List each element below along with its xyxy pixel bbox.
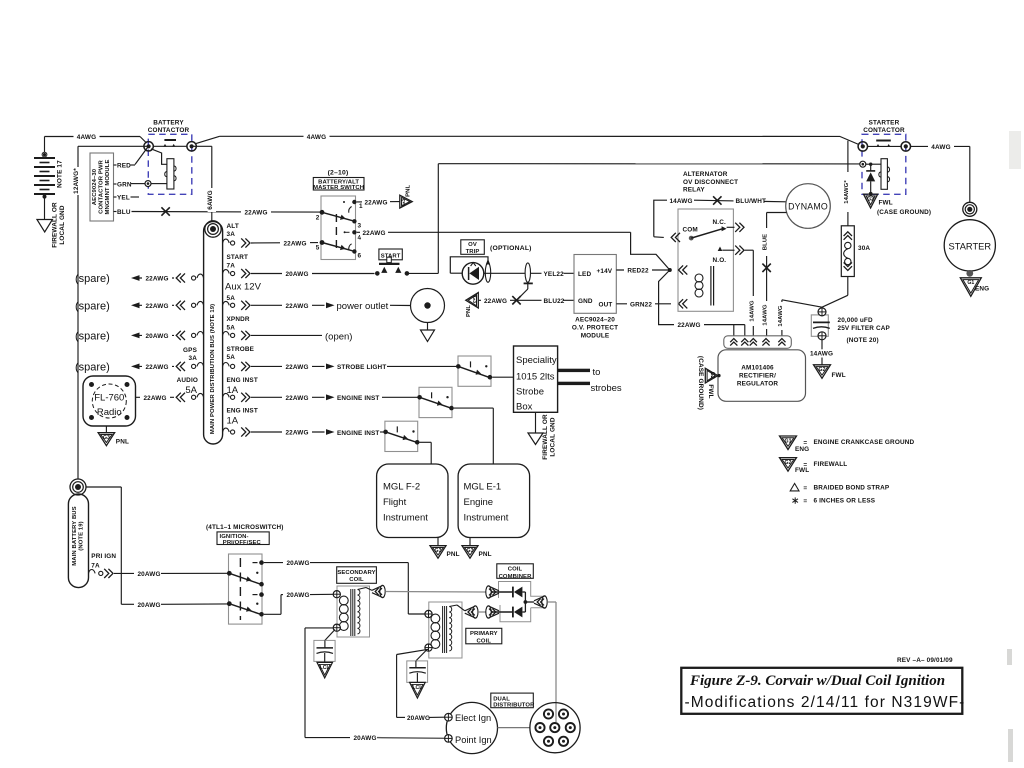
svg-text:AEC9024–30: AEC9024–30 <box>92 168 98 205</box>
fuse XPNDR 5A (open) <box>223 316 250 340</box>
node combiner output junction <box>524 600 535 604</box>
svg-text:LED: LED <box>578 271 591 278</box>
svg-text:6AWG: 6AWG <box>207 190 214 209</box>
wire relay junction to rectifier 22AWG <box>659 270 745 336</box>
ground PNL G3 (MGL F-2) <box>430 538 460 559</box>
svg-text:STROBE LIGHT: STROBE LIGHT <box>337 364 386 371</box>
svg-text:22AWG: 22AWG <box>285 430 308 437</box>
svg-text:22AWG: 22AWG <box>285 364 308 371</box>
svg-text:YEL22: YEL22 <box>544 271 565 278</box>
wire ignition module to distributor <box>498 727 530 729</box>
svg-text:PRIMARY: PRIMARY <box>470 631 498 637</box>
wire 22AWG master pin1 to panel ground <box>357 197 400 206</box>
wire 22AWG radio to audio fuse <box>136 393 174 402</box>
svg-text:GND: GND <box>578 298 593 305</box>
svg-text:CONTACTOR: CONTACTOR <box>863 127 905 134</box>
switch engine inst 1 <box>417 387 454 417</box>
wire N.O. to rectifier 14AWG <box>745 250 758 336</box>
svg-text:N.O.: N.O. <box>713 257 727 264</box>
relay coil <box>668 265 714 305</box>
svg-text:STARTER: STARTER <box>869 119 900 126</box>
wire engine inst 1 to MGL E-1 <box>454 408 494 464</box>
fuse spare #4 <box>176 362 203 371</box>
svg-text:22AWG: 22AWG <box>285 395 308 402</box>
svg-text:ALT: ALT <box>227 223 239 230</box>
svg-text:(2–10): (2–10) <box>328 169 349 176</box>
svg-text:ENG: ENG <box>975 286 989 293</box>
connector pin (LED lead) <box>485 263 490 282</box>
wire BLUE 14AWG dynamo to rectifier <box>762 213 786 336</box>
svg-text:MNGMNT MODULE: MNGMNT MODULE <box>105 160 111 215</box>
pin RED of AEC9024-30 <box>114 163 132 170</box>
wire battery bus to ignition switch (SEC) <box>86 487 229 609</box>
svg-text:=: = <box>803 439 807 446</box>
wire GRN22 OUT to relay coil <box>616 299 687 308</box>
svg-text:1A: 1A <box>227 415 239 426</box>
svg-text:FWL: FWL <box>707 384 714 398</box>
svg-text:RECTIFIER/: RECTIFIER/ <box>739 373 776 380</box>
primary coil <box>429 602 502 658</box>
svg-text:G2: G2 <box>819 367 826 373</box>
switch ignition PRI/OFF/SEC microswitch <box>206 524 284 624</box>
terminal secondary coil + (20AWG in) <box>333 591 340 598</box>
svg-text:ENGINE INST: ENGINE INST <box>337 395 379 402</box>
terminal primary coil - <box>425 644 432 651</box>
svg-text:FIREWALL OR: FIREWALL OR <box>52 202 59 248</box>
svg-text:25V FILTER CAP: 25V FILTER CAP <box>838 325 891 332</box>
svg-text:BLUE: BLUE <box>763 234 769 250</box>
fuse START 7A <box>223 254 250 278</box>
starter contactor coil <box>879 159 890 190</box>
wire 14AWG cap node to rectifier <box>778 300 822 336</box>
ground (power outlet) <box>421 323 435 342</box>
battery contactor coil <box>151 149 176 189</box>
dual distributor label <box>491 693 535 708</box>
svg-text:14AWG: 14AWG <box>669 198 692 205</box>
ground PNL G3 (master switch) <box>400 184 412 208</box>
wire primary HT to coil combiner <box>478 611 486 613</box>
connector pin (YEL22 lead) <box>517 263 533 300</box>
fuse ALT 3A <box>223 223 250 248</box>
terminal elect ign <box>445 713 453 721</box>
ground LCL (secondary cap) <box>317 662 333 678</box>
svg-text:OUT: OUT <box>599 301 613 308</box>
wire 20AWG spare #3 <box>75 331 174 343</box>
ground G1 ENG (starter) <box>960 278 989 297</box>
fuse AUDIO (radio) <box>176 393 203 402</box>
svg-text:G1: G1 <box>967 280 974 286</box>
svg-text:PNL: PNL <box>405 184 411 196</box>
wire 22AWG spare #4 <box>75 362 174 374</box>
connector secondary coil HT <box>372 585 385 597</box>
svg-text:6: 6 <box>358 253 362 260</box>
svg-text:NOTE 17: NOTE 17 <box>57 160 64 188</box>
svg-text:20AWG: 20AWG <box>286 560 309 567</box>
revision note <box>897 657 953 664</box>
label AUDIO 5A <box>177 377 198 396</box>
module AEC9024-20 OV protect <box>572 255 618 340</box>
splice on BLU/WHT <box>713 196 721 204</box>
fuse STROBE 5A <box>223 346 255 371</box>
svg-text:Figure Z-9. Corvair w/Dual Co: Figure Z-9. Corvair w/Dual Coil Ignition <box>689 673 945 689</box>
svg-text:power outlet: power outlet <box>337 301 389 312</box>
ground G2 FWL case ground (rectifier) <box>697 356 721 410</box>
svg-text:COMBINER: COMBINER <box>499 574 533 580</box>
svg-text:(OPTIONAL): (OPTIONAL) <box>490 245 532 252</box>
terminal secondary coil - <box>333 624 340 631</box>
wire starter solenoid signal <box>409 164 860 274</box>
fuse ENG INST 1A (#2) <box>223 407 258 436</box>
coil combiner <box>497 564 546 622</box>
svg-text:=: = <box>803 485 807 492</box>
svg-text:CONTACTOR: CONTACTOR <box>148 127 190 134</box>
svg-text:5A: 5A <box>227 325 236 332</box>
fuse Aux 12V 5A <box>223 281 262 310</box>
capacitor (secondary coil) <box>314 630 335 663</box>
svg-text:strobes: strobes <box>591 383 622 394</box>
wire 14AWG starter contactor to 30A fuse <box>844 141 852 226</box>
svg-text:20AWG: 20AWG <box>286 592 309 599</box>
fuse ENG INST 1A (#1) <box>223 377 258 402</box>
svg-text:20AWG: 20AWG <box>137 602 160 609</box>
wire 22AWG master pin4 to OV relay <box>357 228 631 237</box>
svg-text:-Modifications 2/14/11 for N31: -Modifications 2/14/11 for N319WF- <box>685 694 966 711</box>
svg-text:G2: G2 <box>709 372 715 379</box>
svg-text:FWL: FWL <box>832 372 846 379</box>
svg-text:(spare): (spare) <box>75 362 110 374</box>
svg-text:BLU: BLU <box>117 209 131 216</box>
svg-text:STARTER: STARTER <box>949 241 992 251</box>
svg-text:LOCAL GND: LOCAL GND <box>59 205 66 244</box>
terminal point ign <box>445 735 453 743</box>
wire 22AWG to engine inst switch 1 <box>251 393 420 402</box>
wire BLU 22AWG to master switch pin2 <box>132 207 321 216</box>
starter contactor solenoid terminal <box>860 161 881 167</box>
svg-text:5A: 5A <box>227 295 236 302</box>
wire 20AWG ignition SEC to secondary coil <box>264 590 333 614</box>
svg-text:START: START <box>227 254 249 261</box>
svg-text:(CASE GROUND): (CASE GROUND) <box>877 209 931 216</box>
svg-text:MGL F-2: MGL F-2 <box>383 482 420 493</box>
svg-text:BLU/WHT: BLU/WHT <box>736 198 767 205</box>
wire 20AWG primary to elect ign <box>397 649 445 722</box>
svg-text:(CASE GROUND): (CASE GROUND) <box>697 356 704 410</box>
svg-text:PRI IGN: PRI IGN <box>91 553 116 560</box>
svg-text:7A: 7A <box>227 263 236 270</box>
capacitor 20000uF filter <box>811 308 890 344</box>
wire 20AWG secondary to point ign <box>305 628 445 742</box>
svg-text:22AWG: 22AWG <box>145 276 168 283</box>
svg-text:20AWG: 20AWG <box>285 271 308 278</box>
svg-text:LOCAL GND: LOCAL GND <box>549 417 556 456</box>
pin GRN of AEC9024-30 <box>114 182 132 189</box>
svg-text:PNL: PNL <box>447 551 460 558</box>
battery contactor <box>144 119 196 194</box>
svg-text:5: 5 <box>316 245 320 252</box>
svg-text:AM101406: AM101406 <box>741 365 774 372</box>
svg-text:REGULATOR: REGULATOR <box>737 381 778 388</box>
svg-text:14AWG: 14AWG <box>749 300 755 321</box>
ground G2 FWL (filter cap) <box>810 340 846 379</box>
svg-text:OV: OV <box>468 242 477 248</box>
svg-text:12AWG*: 12AWG* <box>73 168 80 194</box>
svg-text:COIL: COIL <box>508 567 523 573</box>
svg-text:30A: 30A <box>858 245 870 252</box>
svg-text:ENGINE INST: ENGINE INST <box>337 430 379 437</box>
svg-text:22AWG: 22AWG <box>283 241 306 248</box>
ground PNL G3 (OV trip) <box>466 293 479 317</box>
ground PNL G3 (MGL E-1) <box>462 538 492 559</box>
wire 22AWG ALT fuse to master switch pin5 <box>251 239 318 248</box>
svg-text:G3: G3 <box>103 435 110 441</box>
svg-text:FWL: FWL <box>879 200 893 207</box>
wire 4AWG to starter motor <box>911 142 970 202</box>
svg-text:22AWG: 22AWG <box>145 364 168 371</box>
svg-text:22AWG: 22AWG <box>285 303 308 310</box>
wire strobe switch to strobe box <box>492 376 513 378</box>
svg-text:XPNDR: XPNDR <box>227 316 250 323</box>
svg-text:Radio: Radio <box>97 407 122 418</box>
relay alternator OV disconnect <box>678 171 744 311</box>
strobe box Speciality 1015 <box>514 346 558 413</box>
svg-text:BATTERY: BATTERY <box>153 119 184 126</box>
svg-text:22AWG: 22AWG <box>677 322 700 329</box>
svg-text:LCL: LCL <box>412 685 423 691</box>
svg-text:5A: 5A <box>185 385 197 396</box>
wire to strobes (thick pair) <box>558 367 622 394</box>
pin YEL of AEC9024-30 <box>114 195 140 202</box>
switch strobe light <box>456 356 492 386</box>
svg-text:PNL: PNL <box>479 551 492 558</box>
distributor cap <box>530 703 580 753</box>
svg-text:5A: 5A <box>227 354 236 361</box>
legend braided bond strap <box>790 483 890 492</box>
svg-text:=: = <box>803 461 807 468</box>
wire GRN to contactor coil terminal <box>131 183 146 185</box>
lamp OV TRIP LED (optional) <box>450 240 531 284</box>
wire RED22 +14V to relay coil <box>616 266 668 275</box>
svg-text:COM: COM <box>683 227 698 234</box>
svg-text:G2: G2 <box>867 197 874 203</box>
svg-text:FL-760: FL-760 <box>94 393 124 404</box>
electronic/points ignition module <box>446 702 497 753</box>
secondary coil <box>337 567 377 637</box>
label GPS 3A <box>183 347 198 362</box>
battery B1 (NOTE 17) <box>34 152 64 198</box>
wire 30A fuse to filter cap node <box>822 277 848 308</box>
svg-text:RELAY: RELAY <box>683 186 705 193</box>
ground firewall-or-local (strobe box) <box>528 412 556 459</box>
svg-text:G1: G1 <box>785 438 792 444</box>
svg-text:CONTACTOR PWR: CONTACTOR PWR <box>99 159 105 213</box>
svg-text:22AWG: 22AWG <box>484 298 507 305</box>
diode combiner D2 <box>492 602 526 617</box>
svg-text:ENG INST: ENG INST <box>227 407 258 414</box>
svg-text:14AWG: 14AWG <box>778 305 784 326</box>
wire 22AWG spare #2 <box>75 300 174 312</box>
svg-text:DISTRIBUTOR: DISTRIBUTOR <box>493 703 535 709</box>
title block <box>681 668 965 714</box>
svg-text:=: = <box>803 498 807 505</box>
svg-text:FIREWALL OR: FIREWALL OR <box>542 414 549 460</box>
svg-text:20AWG: 20AWG <box>137 571 160 578</box>
svg-text:Elect Ign: Elect Ign <box>455 713 491 723</box>
svg-text:REV –A– 09/01/09: REV –A– 09/01/09 <box>897 657 953 664</box>
wire engine inst 2 to MGL F-2 <box>420 442 432 464</box>
svg-text:MGL E-1: MGL E-1 <box>464 482 502 493</box>
scan artifacts right edge <box>1007 131 1021 762</box>
switch engine inst 2 <box>383 421 419 451</box>
splice on BLUE <box>762 264 770 272</box>
fuse spare #3 <box>176 331 203 340</box>
svg-text:Instrument: Instrument <box>383 513 428 524</box>
svg-text:4AWG: 4AWG <box>307 134 326 141</box>
radio FL-760 <box>83 376 136 426</box>
svg-text:G3: G3 <box>401 199 407 206</box>
svg-text:GRN: GRN <box>117 182 132 189</box>
svg-text:FIREWALL: FIREWALL <box>814 461 848 468</box>
svg-text:20,000 uFD: 20,000 uFD <box>838 317 873 324</box>
diode (starter contactor suppressor) <box>866 164 875 196</box>
svg-text:6 INCHES OR LESS: 6 INCHES OR LESS <box>814 498 876 505</box>
svg-text:G3: G3 <box>467 548 474 554</box>
ground firewall-or-local (battery) <box>37 197 66 248</box>
connector combiner input 1 <box>486 586 499 598</box>
svg-text:20AWG: 20AWG <box>407 715 430 722</box>
wire 20AWG start fuse to start button <box>251 269 375 278</box>
svg-text:22AWG: 22AWG <box>143 395 166 402</box>
svg-text:PNL: PNL <box>116 438 129 445</box>
wire starter contactor to 4AWG feed <box>840 137 859 145</box>
pin BLU of AEC9024-30 <box>114 209 131 216</box>
svg-text:AUDIO: AUDIO <box>177 377 198 384</box>
svg-text:14AWG: 14AWG <box>763 304 769 325</box>
fuse spare #1 <box>176 273 203 282</box>
ground PNL G3 (radio) <box>98 426 129 446</box>
legend G2 firewall <box>780 458 848 474</box>
wire BLU22 / 22AWG to panel ground <box>478 296 574 305</box>
wire 22AWG to strobe switch <box>251 362 458 371</box>
svg-text:7A: 7A <box>91 562 100 569</box>
svg-text:(NOTE 20): (NOTE 20) <box>847 337 879 344</box>
svg-text:MASTER SWITCH: MASTER SWITCH <box>313 185 364 191</box>
svg-text:G3: G3 <box>435 548 442 554</box>
MGL F-2 flight instrument <box>377 464 448 538</box>
svg-text:(open): (open) <box>325 331 352 342</box>
wire 4AWG main feed to starter contactor <box>196 132 840 144</box>
svg-text:BLU22: BLU22 <box>544 298 565 305</box>
svg-text:Strobe: Strobe <box>516 387 544 398</box>
svg-text:Speciality: Speciality <box>516 355 557 366</box>
svg-text:DYNAMO: DYNAMO <box>788 201 828 211</box>
svg-text:TRIP: TRIP <box>466 249 480 255</box>
svg-text:G3: G3 <box>471 296 477 303</box>
wire 4AWG battery to battery contactor <box>45 132 147 153</box>
svg-text:G2: G2 <box>785 460 792 466</box>
svg-text:STROBE: STROBE <box>227 346 255 353</box>
legend 6 inches or less <box>792 497 875 505</box>
wire COM 14AWG to BLU/WHT dynamo <box>654 196 787 242</box>
capacitor (primary coil) <box>407 650 428 683</box>
svg-text:LCL: LCL <box>320 665 331 671</box>
svg-text:(spare): (spare) <box>75 331 110 343</box>
diode combiner D1 <box>492 587 526 602</box>
svg-text:PRI/OFF/SEC: PRI/OFF/SEC <box>223 540 262 546</box>
wire pin4 feed to relay coil junction <box>631 232 670 270</box>
svg-text:ENGINE CRANKCASE GROUND: ENGINE CRANKCASE GROUND <box>814 439 915 446</box>
wire 12AWG battery bus feeder <box>73 146 149 479</box>
svg-text:1015 2lts: 1015 2lts <box>516 372 555 383</box>
wire 22AWG spare #1 <box>75 273 174 285</box>
svg-text:MODULE: MODULE <box>581 333 610 340</box>
wire 20AWG ignition PRI to primary coil <box>264 558 425 614</box>
svg-text:Flight: Flight <box>383 497 407 508</box>
pushbutton START <box>375 249 409 276</box>
starter motor <box>944 202 995 276</box>
svg-text:SECONDARY: SECONDARY <box>337 570 375 576</box>
svg-text:RED22: RED22 <box>627 268 649 275</box>
svg-text:Box: Box <box>516 402 533 413</box>
fuse 30A <box>841 226 870 277</box>
svg-text:YEL: YEL <box>117 195 130 202</box>
svg-text:N.C.: N.C. <box>713 219 726 226</box>
svg-text:ALTERNATOR: ALTERNATOR <box>683 171 728 178</box>
fuse spare #2 <box>176 301 203 310</box>
svg-text:20AWG: 20AWG <box>145 333 168 340</box>
connector primary coil HT <box>465 606 478 618</box>
svg-text:3A: 3A <box>227 231 236 238</box>
module AEC9024-30 contactor pwr mngmnt <box>90 153 114 221</box>
svg-text:22AWG: 22AWG <box>364 199 387 206</box>
wire to (open) <box>251 331 352 342</box>
wire YEL22 to OV module <box>531 269 574 278</box>
svg-text:to: to <box>593 367 601 378</box>
svg-text:PNL: PNL <box>466 305 472 317</box>
svg-text:(spare): (spare) <box>75 300 110 312</box>
svg-text:(spare): (spare) <box>75 273 110 285</box>
svg-text:Engine: Engine <box>464 497 494 508</box>
wire 6AWG contactor to main bus <box>192 146 216 221</box>
switch battery/alt master (2-10) <box>313 169 364 259</box>
main battery bus (NOTE 19) <box>68 479 88 588</box>
splice on BLU22 <box>512 296 520 304</box>
legend G1 engine crankcase ground <box>780 436 915 453</box>
svg-text:(NOTE 19): (NOTE 19) <box>79 521 85 550</box>
svg-text:COIL: COIL <box>477 639 492 645</box>
svg-text:22AWG: 22AWG <box>362 230 385 237</box>
wire 20AWG PRI IGN to ignition switch <box>114 569 229 578</box>
wire RED to battery contactor coil <box>131 148 148 166</box>
rectifier/regulator AM101406 <box>718 336 806 402</box>
wire 22AWG to engine inst switch 2 <box>251 428 386 437</box>
splice on BLU wire <box>161 207 169 215</box>
svg-text:RED: RED <box>117 163 131 170</box>
power outlet connector <box>411 289 445 323</box>
svg-text:MAIN BATTERY BUS: MAIN BATTERY BUS <box>72 506 78 565</box>
svg-text:14AWG*: 14AWG* <box>844 180 850 204</box>
svg-text:(4TL1–1 MICROSWITCH): (4TL1–1 MICROSWITCH) <box>206 524 284 531</box>
connector combiner input 2 <box>486 606 499 618</box>
starter contactor <box>858 119 910 194</box>
svg-text:+14V: +14V <box>597 268 613 275</box>
battery contactor coil terminal (GRN) <box>145 181 151 187</box>
svg-text:ENG: ENG <box>795 446 809 453</box>
MGL E-1 engine instrument <box>458 464 529 538</box>
svg-text:1A: 1A <box>227 385 239 396</box>
dynamo <box>786 184 831 229</box>
svg-text:4AWG: 4AWG <box>931 144 950 151</box>
svg-text:COIL: COIL <box>349 577 364 583</box>
